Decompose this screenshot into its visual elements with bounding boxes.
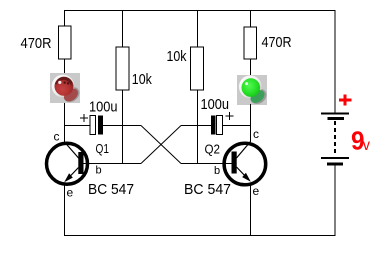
wire Q1 collector node to C1 [65,125,91,127]
wire LED1 to Q1 collector [64,103,66,143]
label + battery positive (red) [339,95,352,106]
svg-text:10k: 10k [167,48,187,65]
wire top rail [64,10,336,12]
battery B1 cell2 short plate [327,163,343,166]
label + C1 polarity [80,114,88,122]
svg-text:470R: 470R [21,35,52,52]
svg-text:c: c [54,130,60,144]
label + C2 polarity [226,112,234,120]
svg-text:Q2: Q2 [205,142,221,157]
wire right branch top (rail to R4) [250,11,252,28]
wire LED2 to Q2 collector [250,104,252,142]
resistor R1 470R body [59,26,72,59]
svg-text:470R: 470R [262,34,292,51]
wire C2 to Q2 collector node [223,125,251,127]
battery B1 dashed middle link [334,121,336,156]
wire bottom rail [64,235,336,237]
capacitor C1 100u negative plate [98,116,103,135]
svg-text:v: v [363,137,370,154]
svg-text:e: e [67,186,74,200]
resistor R4 470R body [244,27,257,59]
svg-text:b: b [96,165,102,177]
battery B1 cell1 long plate [321,113,349,115]
svg-text:b: b [214,165,220,177]
wire R1 to LED1 [64,59,66,73]
capacitor C2 100u negative plate [211,116,216,135]
wire R4 to LED2 [250,59,252,75]
wire R3 branch top (rail to R3) [197,11,199,48]
wire left branch top (rail to R1) [64,11,66,27]
resistor R3 10k body [191,47,204,90]
svg-text:100u: 100u [201,96,230,113]
wire R2 bottom to Q1 base node (crosses cap wire) [122,90,124,164]
transistor Q1 BC547 [47,142,88,184]
wire C1 to cross-coupling [103,125,141,127]
transistor Q2 BC547 [224,142,266,185]
svg-text:Q1: Q1 [96,141,110,156]
capacitor C1 100u positive plate [90,116,96,135]
svg-text:100u: 100u [89,99,118,116]
wire C2 to cross-coupling [181,125,211,127]
wire battery - to bottom rail [334,166,336,236]
wire R3 bottom to Q2 base node (crosses cap wire) [197,90,199,164]
capacitor C2 100u positive plate [217,116,223,135]
LED D1 red indicator [50,73,82,105]
battery B1 cell2 long plate [321,157,349,159]
svg-text:BC 547: BC 547 [184,181,231,198]
wire Q1 emitter to bottom rail [64,184,66,236]
resistor R2 10k body [116,47,129,90]
wire battery branch (rail to battery +) [334,11,336,113]
svg-text:10k: 10k [132,71,152,88]
wire cross diagonal Q1 base to C2 [141,126,181,164]
wire R2 branch top (rail to R2) [122,11,124,48]
battery B1 cell1 short plate [328,117,345,120]
LED D2 green indicator [237,75,269,107]
svg-text:BC 547: BC 547 [88,181,134,198]
wire Q1 base [83,163,141,165]
wire Q2 emitter to bottom rail [250,183,252,236]
wire cross diagonal C1 to Q2 base [141,126,181,164]
svg-text:e: e [253,184,260,198]
wire Q2 base [181,163,232,165]
svg-text:c: c [253,127,259,141]
